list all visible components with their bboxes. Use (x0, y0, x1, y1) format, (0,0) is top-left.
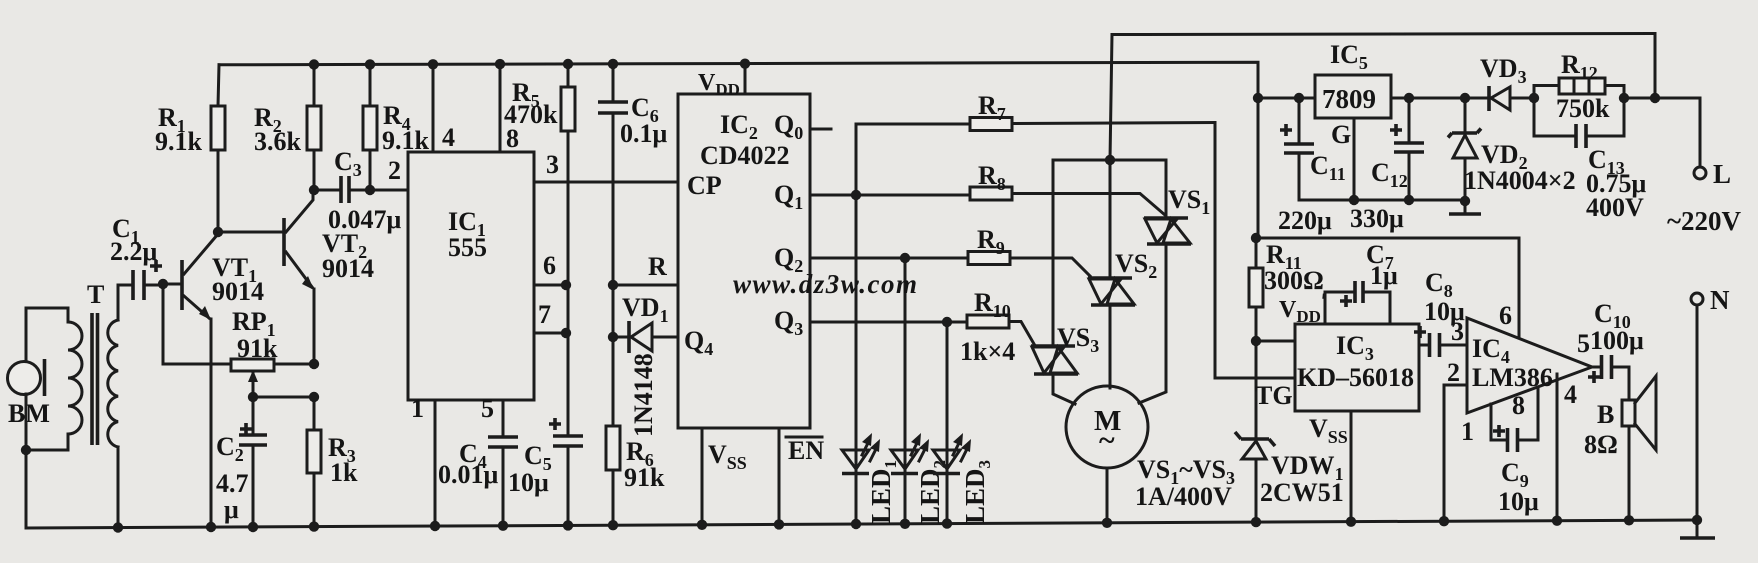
svg-text:750k: 750k (1556, 94, 1610, 123)
resistor R7 (856, 91, 1215, 131)
wire mains feed to triacs (1105, 35, 1115, 166)
voice chip IC3 KD-56018 (1255, 324, 1419, 411)
svg-text:220μ: 220μ (1278, 206, 1332, 235)
resistor R11 300ohm (1249, 238, 1324, 341)
svg-text:TG: TG (1255, 381, 1293, 410)
svg-text:3: 3 (546, 150, 559, 179)
capacitor C3 0.047u (328, 147, 402, 234)
LED2 (891, 258, 949, 529)
svg-text:470k: 470k (504, 100, 558, 129)
svg-text:T: T (87, 280, 104, 309)
svg-text:μ: μ (224, 495, 239, 524)
triac VS3 (1031, 160, 1099, 404)
svg-text:2: 2 (1447, 358, 1460, 387)
speaker B 8ohm (1584, 376, 1656, 526)
svg-text:91k: 91k (624, 463, 665, 492)
resistor R9 (968, 225, 1090, 276)
svg-text:7: 7 (538, 300, 551, 329)
wire base node down to RP1 left (163, 284, 231, 364)
wire 555 pin 4 (428, 59, 455, 152)
wire mains top rail (1112, 34, 1660, 104)
svg-text:330μ: 330μ (1350, 204, 1404, 233)
svg-text:9014: 9014 (212, 277, 264, 306)
wire RP1 wiper link (248, 392, 319, 402)
node R6 line / R pin (608, 252, 678, 290)
terminal L (1667, 159, 1742, 236)
svg-text:1: 1 (411, 394, 424, 423)
resistor R12 750k (1529, 50, 1624, 136)
svg-text:1: 1 (1461, 417, 1474, 446)
svg-text:400V: 400V (1586, 193, 1644, 222)
wire secondary top to C1 (118, 285, 133, 320)
capacitor C7 1u (1325, 240, 1398, 323)
svg-text:G: G (1331, 120, 1351, 149)
capacitor C4 0.01u (438, 394, 518, 531)
svg-text:KD–56018: KD–56018 (1297, 363, 1414, 392)
potentiometer RP1 91k (231, 307, 314, 397)
wire top supply rail (219, 62, 1258, 238)
wire Q2 to R9 (774, 243, 968, 276)
ground symbol right (1680, 515, 1715, 538)
wire R7 to IC3 TG (1215, 123, 1295, 379)
resistor R1 9.1k (155, 65, 225, 232)
wire 555 pin 8 (495, 59, 519, 153)
svg-text:9.1k: 9.1k (155, 127, 203, 156)
transistor VT2 9014 (284, 191, 374, 364)
svg-text:2CW51: 2CW51 (1260, 478, 1344, 507)
svg-text:1N4148: 1N4148 (629, 353, 658, 437)
counter IC2 CD4022 box (678, 94, 810, 428)
resistor R5 470k (504, 59, 575, 285)
svg-text:7809: 7809 (1322, 84, 1376, 114)
triac VS2 (1088, 160, 1157, 388)
svg-text:LED1: LED1 (866, 460, 900, 524)
transformer T secondary winding (108, 320, 118, 447)
svg-text:100μ: 100μ (1590, 326, 1644, 355)
resistor R10 (960, 288, 1034, 366)
svg-text:1N4004×2: 1N4004×2 (1464, 166, 1576, 195)
wire Q0 stub (774, 110, 831, 143)
node VT1 base junction (158, 279, 180, 289)
regulator IC5 7809 (1315, 40, 1489, 118)
svg-text:1A/400V: 1A/400V (1135, 482, 1232, 511)
svg-text:LED2: LED2 (915, 460, 949, 524)
transformer T core (87, 280, 104, 445)
svg-text:5: 5 (1577, 329, 1590, 358)
svg-text:91k: 91k (237, 334, 278, 363)
node R2/C3/VT2 collector (309, 185, 341, 195)
wire IC4 pin 2 to ground (1439, 385, 1467, 526)
resistor R4 9.1k (363, 59, 430, 195)
node RP1 right / VT2 emitter (309, 359, 319, 369)
watermark (733, 269, 919, 299)
wire BM top to transformer primary (26, 308, 68, 361)
transformer T primary winding (68, 322, 82, 434)
capacitor C9 10u (1491, 387, 1539, 516)
diode VD2 1N4004x2 (1448, 93, 1576, 206)
wire IC2 EN pin (774, 428, 825, 530)
svg-text:R: R (648, 252, 667, 281)
svg-text:1μ: 1μ (1370, 261, 1398, 290)
svg-text:~: ~ (1099, 424, 1115, 457)
node 7809 output (1253, 93, 1315, 103)
svg-text:10μ: 10μ (1498, 487, 1539, 516)
wire IC2 VSS pin (697, 428, 747, 530)
ground symbol supply (1449, 201, 1481, 214)
resistor R3 1k (307, 397, 358, 532)
svg-text:0.1μ: 0.1μ (620, 119, 668, 148)
svg-text:4: 4 (442, 123, 455, 152)
svg-text:2.2μ: 2.2μ (110, 237, 158, 266)
resistor R6 91k (606, 337, 665, 530)
svg-text:3.6k: 3.6k (254, 127, 302, 156)
svg-text:3: 3 (1451, 317, 1464, 346)
wire Q1 to R8 (774, 180, 970, 213)
wire 555 pin 3 to IC2 CP (534, 150, 678, 182)
svg-text:555: 555 (448, 233, 487, 262)
svg-text:0.047μ: 0.047μ (328, 205, 402, 234)
wire IC5 G pin (1331, 118, 1359, 205)
capacitor C1 2.2u (110, 214, 163, 300)
diode VD3 (1480, 54, 1534, 111)
wire IC3 VSS pin (1309, 411, 1356, 527)
svg-text:~220V: ~220V (1667, 206, 1742, 236)
microphone BM (8, 359, 50, 428)
wire secondary bottom to rail (113, 447, 123, 533)
capacitor C6 0.1u (598, 59, 668, 285)
transistor VT1 9014 (182, 234, 264, 532)
zener VDW1 2CW51 (1235, 341, 1344, 527)
svg-text:4: 4 (1564, 380, 1577, 409)
svg-text:6: 6 (543, 251, 556, 280)
capacitor C8 10u (1414, 268, 1467, 357)
wire IC2 VDD pin (698, 59, 750, 100)
svg-text:L: L (1713, 159, 1731, 189)
wire triac common node (1053, 159, 1166, 162)
svg-text:LM386: LM386 (1472, 363, 1553, 392)
svg-text:www.dz3w.com: www.dz3w.com (733, 269, 919, 299)
svg-text:N: N (1710, 285, 1730, 315)
wire BM bottom (25, 394, 28, 528)
svg-text:1k×4: 1k×4 (960, 337, 1015, 366)
wire Q3 to R10 (774, 306, 967, 339)
svg-text:300Ω: 300Ω (1264, 266, 1324, 295)
node VT1 collector / VT2 base (213, 227, 282, 237)
wire pin6 to pin7 segment (567, 285, 570, 333)
wire bottom rail (26, 520, 1698, 528)
motor M (1066, 386, 1235, 528)
node BM/primary bottom junction (21, 434, 68, 455)
svg-text:CD4022: CD4022 (700, 141, 790, 170)
wire 555 pin 6 stub (534, 251, 571, 290)
diode VD1 1N4148 (608, 285, 678, 437)
triac VS1 (1139, 160, 1210, 403)
LED1 (842, 124, 900, 529)
svg-text:8: 8 (1512, 391, 1525, 420)
wire C3 to 555 pin 2 (370, 156, 408, 190)
wire IC4 pin 6 supply (1518, 238, 1521, 338)
capacitor C13 0.75u 400V (1534, 86, 1647, 223)
resistor R2 3.6k (254, 59, 321, 190)
svg-text:6: 6 (1499, 301, 1512, 330)
svg-text:4.7: 4.7 (216, 469, 249, 498)
wire 9V rail to amp (1251, 233, 1519, 243)
node IC3 VDD feed (1251, 288, 1327, 346)
svg-text:10μ: 10μ (508, 468, 549, 497)
terminal N (1691, 285, 1730, 520)
wire to L terminal (1624, 98, 1700, 167)
svg-text:LED3: LED3 (960, 460, 994, 524)
op-amp timer IC1 555 box (408, 152, 534, 400)
wire 555 pin 1 (411, 394, 440, 531)
capacitor C11 220u (1278, 93, 1346, 235)
wire 555 pin 7 stub (534, 300, 571, 338)
capacitor C10 100u (1588, 299, 1644, 400)
svg-text:0.01μ: 0.01μ (438, 460, 499, 489)
wire supply ground bus (1299, 199, 1465, 202)
capacitor C5 10u (508, 333, 583, 531)
svg-text:2: 2 (388, 156, 401, 185)
svg-text:BM: BM (8, 399, 50, 428)
svg-text:5: 5 (481, 394, 494, 423)
op-amp IC4 LM386 (1447, 301, 1592, 446)
capacitor C12 330u (1350, 93, 1424, 233)
LED3 (933, 322, 994, 529)
svg-text:9014: 9014 (322, 254, 374, 283)
svg-text:8Ω: 8Ω (1584, 430, 1618, 459)
svg-text:CP: CP (687, 171, 722, 200)
svg-text:1k: 1k (330, 458, 358, 487)
capacitor C2 4.7u (216, 397, 267, 532)
svg-text:EN: EN (788, 436, 824, 465)
resistor R8 (970, 161, 1165, 215)
svg-text:B: B (1597, 400, 1614, 429)
wire IC4 pin 4 to ground (1552, 374, 1562, 526)
